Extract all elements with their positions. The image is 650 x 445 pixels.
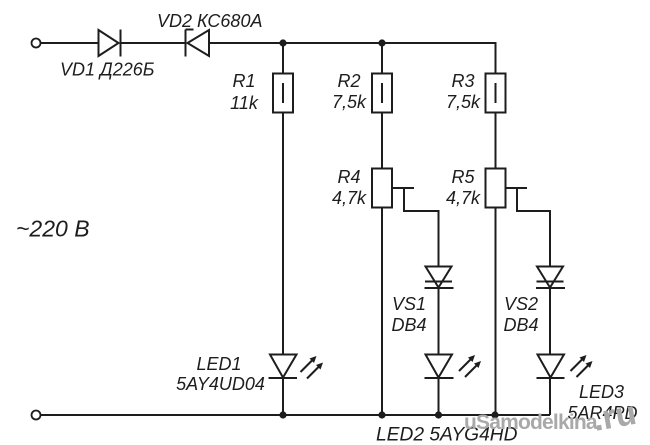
node A junction dot (top of R1) bbox=[279, 39, 286, 46]
label LED3 5AR4PD bbox=[567, 382, 637, 423]
node junction dot (R5 to bottom rail) bbox=[491, 411, 498, 418]
svg-text:R1: R1 bbox=[232, 71, 255, 91]
wire: R5 down to bottom rail bbox=[495, 208, 497, 416]
wire: R5 tap to VS2 bbox=[517, 188, 550, 267]
diode VD1 bbox=[99, 30, 121, 57]
label VS2 DB4 bbox=[503, 294, 538, 335]
resistor R1 bbox=[273, 74, 293, 113]
svg-text:VS1: VS1 bbox=[392, 294, 426, 314]
wire: bottom rail bbox=[41, 414, 550, 416]
LED LED2 bbox=[425, 355, 482, 379]
wire: node A to node B bbox=[283, 42, 382, 44]
svg-text:VD2 КС680А: VD2 КС680А bbox=[157, 11, 262, 31]
LED LED3 bbox=[537, 355, 593, 379]
svg-text:LED1: LED1 bbox=[196, 354, 241, 374]
wire: top input terminal to VD1 bbox=[41, 42, 99, 44]
node B junction dot (top of R2) bbox=[378, 39, 385, 46]
wire: node B to top-right corner down to R3 bbox=[382, 43, 496, 74]
svg-text:DB4: DB4 bbox=[503, 315, 538, 335]
node junction dot (LED2 to bottom rail) bbox=[435, 411, 442, 418]
resistor R3 bbox=[486, 74, 506, 113]
diac VS2 DB4 bbox=[536, 267, 565, 289]
svg-text:.ru: .ru bbox=[590, 394, 639, 439]
label LED1 5AY4UD04 bbox=[176, 354, 265, 394]
wire: R1 down to LED1 bbox=[282, 113, 284, 355]
wire: VD1 to VD2 bbox=[121, 42, 186, 44]
wire: LED1 to bottom rail bbox=[282, 378, 284, 415]
wire: R3 down to R5 bbox=[495, 113, 497, 169]
svg-text:R5: R5 bbox=[451, 167, 475, 187]
svg-text:11k: 11k bbox=[230, 93, 259, 113]
label VS1 DB4 bbox=[391, 294, 426, 335]
label R4 4,7k bbox=[332, 167, 367, 208]
terminal: bottom input bbox=[32, 411, 41, 420]
wire: node B down to R2 bbox=[381, 43, 383, 74]
wire: node A down to R1 bbox=[282, 43, 284, 74]
label R3 7,5k bbox=[446, 71, 481, 112]
wire: VS2 to LED3 bbox=[549, 288, 551, 355]
diac VS1 DB4 bbox=[425, 267, 454, 289]
wire: R4 tap to VS1 bbox=[404, 188, 439, 267]
watermark uSamodelkina.ru bbox=[464, 394, 639, 439]
node junction dot (R4 to bottom rail) bbox=[378, 411, 385, 418]
svg-text:4,7k: 4,7k bbox=[332, 188, 367, 208]
LED LED1 bbox=[269, 355, 324, 379]
svg-text:VS2: VS2 bbox=[504, 294, 538, 314]
svg-text:R2: R2 bbox=[337, 71, 360, 91]
svg-text:R4: R4 bbox=[337, 167, 360, 187]
terminal: top input bbox=[32, 39, 41, 48]
svg-text:4,7k: 4,7k bbox=[446, 188, 481, 208]
wire: LED2 to bottom rail bbox=[438, 378, 440, 415]
label R5 4,7k bbox=[446, 167, 481, 208]
wire: R4 down to bottom rail bbox=[381, 208, 383, 416]
wire: LED3 to bottom rail bbox=[549, 378, 551, 415]
wire: VD2 to node A bbox=[209, 42, 283, 44]
svg-text:7,5k: 7,5k bbox=[332, 92, 367, 112]
svg-text:7,5k: 7,5k bbox=[446, 92, 481, 112]
svg-text:uSamodelkina: uSamodelkina bbox=[464, 411, 598, 434]
svg-text:DB4: DB4 bbox=[391, 315, 426, 335]
trimmer resistor R5 bbox=[486, 169, 528, 208]
label R1 11k bbox=[230, 71, 259, 113]
resistor R2 bbox=[372, 74, 392, 113]
node junction dot (LED1 to bottom rail) bbox=[279, 411, 286, 418]
svg-text:5AY4UD04: 5AY4UD04 bbox=[176, 374, 265, 394]
svg-text:VD1 Д226Б: VD1 Д226Б bbox=[60, 60, 155, 80]
label R2 7,5k bbox=[332, 71, 367, 112]
trimmer resistor R4 bbox=[372, 169, 414, 208]
zener diode VD2 bbox=[186, 30, 210, 57]
svg-text:~220 В: ~220 В bbox=[16, 216, 90, 242]
wire: R2 down to R4 bbox=[381, 113, 383, 169]
wire: VS1 to LED2 bbox=[438, 288, 440, 355]
svg-text:R3: R3 bbox=[451, 71, 474, 91]
